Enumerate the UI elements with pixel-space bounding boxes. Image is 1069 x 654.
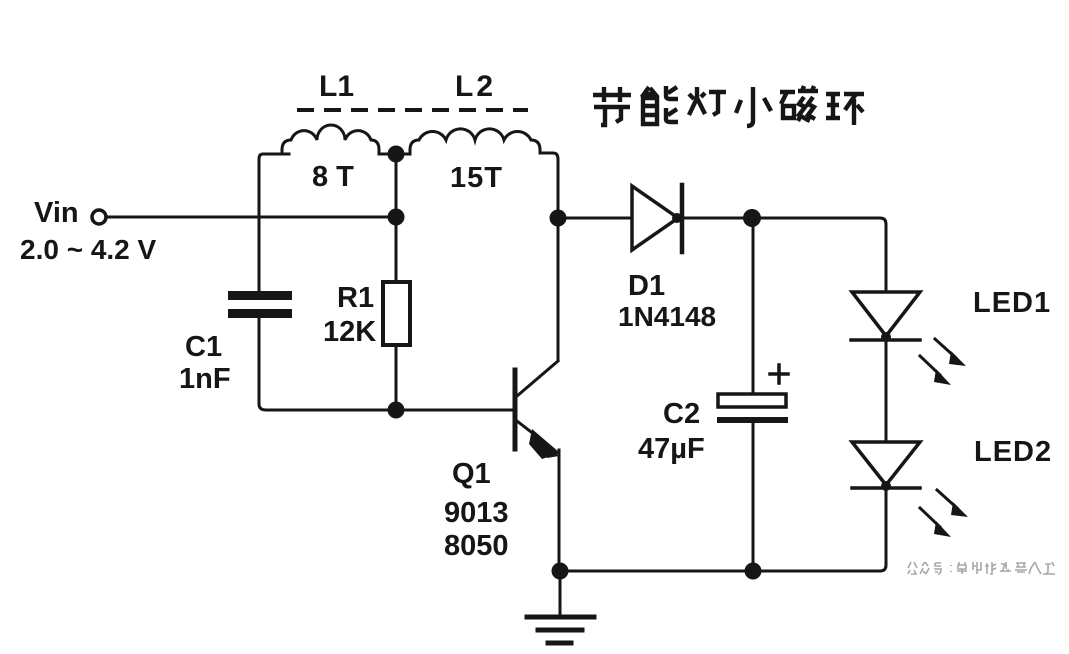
wire R1 bottom to base line — [395, 345, 398, 410]
transistor Q1 collector diagonal — [517, 361, 558, 396]
LED1 triangle — [852, 292, 920, 336]
node diode apex — [672, 213, 682, 223]
svg-text:1N4148: 1N4148 — [618, 301, 716, 332]
LED1 cathode bar — [851, 338, 920, 342]
wire LED1 to LED2 — [885, 340, 888, 442]
resistor R1 body — [383, 282, 410, 345]
title char 磁 — [780, 86, 818, 122]
svg-text:9013: 9013 — [444, 497, 509, 529]
inductor L2 coil 15T — [404, 129, 558, 218]
svg-text:15T: 15T — [450, 162, 503, 194]
capacitor C2 positive plate — [718, 394, 786, 407]
title char 小 — [736, 87, 771, 126]
transistor Q1 base bar — [513, 370, 518, 449]
junction C2 bottom node — [745, 563, 762, 580]
diode D1 triangle — [632, 186, 678, 250]
LED2 emission arrow 2 — [920, 508, 940, 527]
junction Vin / tap — [388, 209, 405, 226]
inductor L1 coil 8T — [282, 125, 388, 154]
title Chinese: 节能灯小磁环 drawn as strokes — [593, 86, 864, 126]
svg-text:1nF: 1nF — [179, 363, 231, 395]
node LED1 apex — [881, 332, 891, 342]
svg-text:C1: C1 — [185, 331, 222, 363]
title char 能 — [643, 86, 678, 124]
wire left vertical L1-left to C1 top — [259, 154, 289, 291]
wire diode to C2 node — [682, 217, 752, 220]
wire LED2 to bottom rail — [560, 488, 886, 571]
svg-text:D1: D1 — [628, 270, 665, 302]
transistor Q1 emitter diagonal — [517, 421, 553, 449]
LED2 emission arrow 1 — [937, 490, 957, 508]
diode D1 cathode bar — [680, 185, 685, 252]
title char 环 — [826, 94, 864, 125]
wire emitter vertical — [558, 450, 561, 571]
capacitor C2 plus sign — [770, 365, 788, 383]
capacitor C1 plate bottom — [228, 309, 292, 318]
ground stem — [559, 571, 562, 616]
ground bar 3 — [548, 641, 571, 646]
wire Vin horizontal — [107, 216, 395, 219]
svg-text:Q1: Q1 — [452, 458, 491, 490]
junction emitter / ground node — [552, 563, 569, 580]
ground bar 2 — [538, 628, 582, 633]
title char 灯 — [689, 87, 726, 115]
junction L1-L2 tap — [388, 146, 405, 163]
capacitor C2 negative plate — [717, 417, 788, 423]
svg-text:L1: L1 — [319, 70, 354, 103]
capacitor C2 top lead — [752, 218, 755, 394]
wire collector vertical — [557, 218, 560, 360]
svg-text:2.0 ~ 4.2 V: 2.0 ~ 4.2 V — [20, 234, 157, 265]
transistor Q1 emitter arrow — [529, 429, 560, 459]
capacitor C1 plate top — [228, 291, 292, 300]
junction base line node — [388, 402, 405, 419]
LED2 triangle — [852, 442, 920, 485]
svg-text:C2: C2 — [663, 398, 700, 430]
svg-text:47µF: 47µF — [638, 433, 705, 465]
magnetic core dashed line — [297, 108, 528, 112]
svg-text:Vin: Vin — [34, 197, 79, 229]
LED2 cathode bar — [852, 486, 920, 490]
svg-text:12K: 12K — [323, 316, 376, 348]
node Vin terminal — [92, 210, 106, 224]
wire C2 node to LED branch corner — [752, 218, 886, 292]
wire C1 bottom to base line — [259, 318, 515, 410]
watermark 公众号:单片机与嵌入式 — [908, 562, 1055, 574]
capacitor C2 bottom lead — [752, 423, 755, 571]
svg-text:LED1: LED1 — [973, 287, 1051, 319]
ground bar 1 — [527, 615, 594, 620]
wire center tap vertical (coil tap to R1 top) — [395, 154, 398, 282]
node LED2 apex — [881, 481, 891, 491]
svg-text:8050: 8050 — [444, 530, 509, 562]
title char 节 — [593, 87, 631, 125]
svg-text:8 T: 8 T — [312, 161, 354, 193]
LED1 emission arrow 1 — [935, 339, 955, 357]
svg-text:R1: R1 — [337, 282, 374, 314]
wire collector node to diode — [558, 217, 632, 220]
junction diode output node — [743, 209, 761, 227]
junction collector node — [550, 210, 567, 227]
LED1 emission arrow 2 — [920, 356, 940, 375]
svg-text:L2: L2 — [455, 70, 496, 103]
wire bottom rail emitter segment — [560, 570, 753, 573]
svg-text:LED2: LED2 — [974, 436, 1052, 468]
